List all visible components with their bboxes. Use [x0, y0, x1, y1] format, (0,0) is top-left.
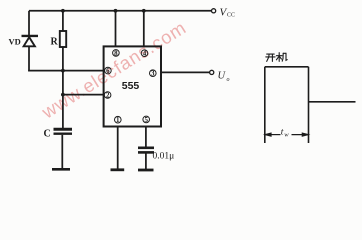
wire Vcc top rail — [29, 10, 212, 12]
pin 3 — [150, 70, 157, 77]
wire pin1 to ground — [117, 127, 119, 170]
ground (C2) — [138, 169, 154, 172]
wire node row to pin6 — [28, 70, 103, 72]
capacitor C — [54, 129, 73, 133]
junction dot pin8 riser / Vcc rail — [114, 9, 118, 13]
svg-text:3: 3 — [151, 70, 155, 78]
junction dot node pin2/C — [61, 93, 65, 97]
wire pin2 node down to C — [62, 95, 64, 128]
ground (pin1) — [111, 168, 125, 171]
wire pin5 down to cap — [145, 127, 147, 148]
pin 5 — [143, 116, 150, 123]
wire node row to pin2 — [63, 94, 104, 96]
pin 6 — [105, 67, 112, 74]
ground (C) — [52, 168, 70, 171]
wire C bottom to ground — [61, 135, 63, 169]
svg-text:w: w — [284, 131, 289, 138]
svg-text:VD: VD — [9, 37, 21, 47]
label 开机 (drawn strokes) — [266, 53, 287, 62]
junction dot R top / Vcc rail — [61, 9, 65, 13]
terminal Vcc — [212, 9, 216, 13]
svg-text:4: 4 — [143, 50, 147, 58]
svg-text:6: 6 — [106, 67, 110, 75]
wire pin4 riser — [143, 11, 145, 47]
svg-text:1: 1 — [116, 116, 120, 124]
dimension arrow left — [265, 133, 280, 136]
waveform pulse — [265, 67, 356, 143]
wire cap 0.01u to ground — [145, 153, 147, 169]
svg-text:o: o — [227, 77, 230, 83]
wire R top riser — [62, 11, 64, 31]
svg-text:5: 5 — [144, 116, 148, 124]
svg-text:CC: CC — [227, 13, 235, 19]
junction dot node R/pin6 — [61, 69, 65, 73]
dimension arrow right — [292, 133, 309, 136]
wire node vertical 6-2 — [62, 71, 64, 95]
junction dot pin4 riser / Vcc rail — [142, 9, 146, 13]
resistor R — [60, 31, 66, 47]
pin 1 — [115, 116, 122, 123]
pin 4 — [141, 50, 148, 57]
svg-text:8: 8 — [114, 49, 118, 57]
IC 555 timer box — [104, 46, 161, 126]
svg-text:R: R — [51, 37, 59, 48]
wire pin3 to output — [161, 71, 210, 73]
terminal Uo — [210, 70, 214, 74]
svg-text:555: 555 — [122, 80, 140, 92]
wire R bottom to node row — [62, 47, 64, 71]
pin 2 — [104, 92, 111, 99]
wire pin8 riser — [115, 11, 117, 47]
capacitor C2 0.01u — [138, 148, 154, 153]
wire left vertical to diode — [28, 11, 30, 36]
wire diode anode to node row — [28, 46, 30, 71]
svg-text:C: C — [44, 129, 51, 140]
svg-text:2: 2 — [106, 91, 110, 99]
svg-text:0.01μ: 0.01μ — [153, 152, 175, 162]
pin 8 — [113, 50, 120, 57]
diode VD — [22, 36, 39, 46]
